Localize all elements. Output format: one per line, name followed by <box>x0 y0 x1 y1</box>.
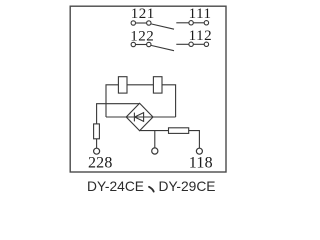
terminal 118 circle <box>196 148 202 154</box>
diode triangle inside bridge <box>135 113 144 122</box>
contact 111 terminal circle a <box>189 21 193 25</box>
contact 112 terminal circle a <box>189 42 193 46</box>
coil winding 2 <box>153 77 162 93</box>
wire winding1 left to corner <box>106 85 118 117</box>
svg-text:DY-29CE: DY-29CE <box>159 179 216 194</box>
contact 121 terminal circle b <box>147 21 151 25</box>
wire rectifier bottom rail <box>140 130 169 132</box>
resistor R2 body <box>169 128 189 134</box>
contact 122 terminal circle b <box>147 42 151 46</box>
diode cathode bar <box>133 113 135 122</box>
contact 122-112 movable blade <box>151 45 174 50</box>
coil winding 1 <box>118 77 127 93</box>
wire R1 to terminal 228 <box>96 139 98 149</box>
wire R2 to corner and down to terminal 118 <box>189 131 200 149</box>
contact 121-111 movable blade <box>151 24 174 29</box>
svg-text:228: 228 <box>88 155 113 172</box>
terminal 228 circle <box>94 148 100 154</box>
ideographic comma <box>149 187 154 192</box>
wire 122 between circles <box>136 44 147 46</box>
relay case outline <box>70 6 226 172</box>
resistor R1 body <box>94 124 100 139</box>
wire 112 lead-in <box>176 43 189 45</box>
svg-text:112: 112 <box>189 28 212 44</box>
contact 121 terminal circle a <box>131 21 135 25</box>
svg-text:121: 121 <box>131 6 155 22</box>
wire winding2 right to corner <box>162 85 176 117</box>
svg-text:118: 118 <box>189 155 213 172</box>
contact 122 terminal circle a <box>131 42 135 46</box>
wire AC line through bridge <box>106 116 176 118</box>
svg-text:111: 111 <box>189 6 212 22</box>
wire 111 lead-in <box>176 22 189 24</box>
wire 121 between circles <box>136 22 147 24</box>
wire between windings <box>127 84 153 86</box>
contact 111 terminal circle b <box>204 21 208 25</box>
wire branch to middle terminal <box>154 131 156 149</box>
wire 112 between circles <box>193 43 204 45</box>
rectifier bridge diamond <box>126 103 153 130</box>
wire rectifier top to left branch <box>97 104 140 124</box>
middle terminal circle <box>152 148 158 154</box>
wire 111 between circles <box>193 22 204 24</box>
contact 112 terminal circle b <box>204 42 208 46</box>
svg-text:DY-24CE: DY-24CE <box>87 179 144 194</box>
